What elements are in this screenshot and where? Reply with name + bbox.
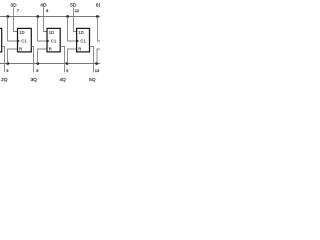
- junction dot on MR line at FF3 reset tap: [6, 62, 9, 65]
- clock wedge of FF3: [18, 40, 20, 43]
- wire: clock tap down to FF5 C1 input: [68, 17, 77, 42]
- svg-text:C1: C1: [80, 39, 86, 44]
- wire: clock tap down to FF4 C1 input: [38, 17, 48, 42]
- wire: reset tap up to FF5 R input: [68, 49, 77, 64]
- junction dot on CP line at FF3 clock tap: [6, 15, 9, 18]
- svg-text:12: 12: [75, 9, 79, 13]
- wire: 3D input drop into FF3 1D: [14, 7, 18, 31]
- flip-flop FF3 box: [18, 28, 32, 52]
- svg-text:8: 8: [46, 9, 48, 13]
- svg-text:1D: 1D: [49, 30, 55, 35]
- svg-text:C1: C1: [51, 39, 57, 44]
- junction dot on CP line at FF5 clock tap: [66, 15, 69, 18]
- junction dot on MR line at FF4 reset tap: [36, 62, 39, 65]
- wire: reset tap up to FF4 R input: [38, 49, 48, 64]
- junction dot on CP line at FF6 clock tap: [96, 15, 99, 18]
- svg-text:9: 9: [66, 69, 68, 73]
- svg-text:4Q: 4Q: [59, 77, 66, 83]
- svg-text:6: 6: [36, 69, 38, 73]
- wire: FF5 output Q stub to 5Q drop: [90, 47, 94, 73]
- flip-flop FF5 box: [77, 28, 90, 52]
- wire: clock tap down toward FF6 (exits right edge): [98, 17, 101, 42]
- wire: FF3 output Q stub to 3Q drop: [31, 47, 33, 73]
- svg-text:1D: 1D: [19, 30, 25, 35]
- svg-text:3Q: 3Q: [30, 77, 37, 83]
- wire: master reset net MR horizontal line: [0, 63, 100, 65]
- wire: clock tap down to FF3 C1 input: [8, 17, 18, 42]
- svg-text:7: 7: [17, 9, 19, 13]
- svg-text:2Q: 2Q: [1, 77, 8, 83]
- clock wedge of FF5: [77, 40, 79, 43]
- wire: reset tap up toward FF6 R (exits right edge): [97, 49, 100, 64]
- wire: 5D input drop into FF5 1D: [74, 7, 77, 31]
- svg-text:5: 5: [6, 69, 8, 73]
- junction dot on MR line at FF5 reset tap: [66, 62, 69, 65]
- svg-text:6D: 6D: [96, 2, 100, 8]
- wire: clock net CP horizontal line: [0, 16, 100, 18]
- flip-flop FF4 box: [47, 28, 60, 52]
- clock wedge of FF4: [47, 40, 49, 43]
- flip-flop FF2 (partial box at left edge): [0, 28, 2, 52]
- wire: 4D input drop into FF4 1D: [44, 7, 48, 31]
- wire: FF4 output Q stub to 4Q drop: [60, 47, 64, 73]
- junction dot on CP line at FF4 clock tap: [36, 15, 39, 18]
- wire: reset tap up to FF3 R input: [8, 49, 18, 64]
- svg-text:13: 13: [95, 69, 99, 73]
- svg-text:5Q: 5Q: [89, 77, 96, 83]
- svg-text:1D: 1D: [78, 30, 84, 35]
- junction dot on MR line at FF6 reset tap: [95, 62, 98, 65]
- wire: FF2 output Q stub to 2Q drop: [2, 47, 5, 73]
- svg-text:C1: C1: [21, 39, 27, 44]
